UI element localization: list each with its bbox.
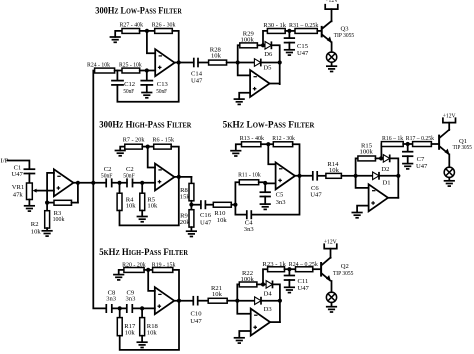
wire node up to R22 <box>237 284 239 300</box>
svg-text:300Hz High-Pass Filter: 300Hz High-Pass Filter <box>99 120 192 131</box>
ground at R20 left <box>113 275 124 280</box>
ground under R5 <box>137 217 148 222</box>
resistor R15 <box>358 143 376 161</box>
svg-text:R10: R10 <box>214 210 226 217</box>
node clipper2 input <box>354 174 358 178</box>
resistor R16 <box>381 135 403 146</box>
node HPF1 output <box>177 175 181 179</box>
resistor R20 <box>122 261 146 272</box>
svg-text:R7 - 20k: R7 - 20k <box>123 137 145 144</box>
wire D6 to output column <box>271 45 279 84</box>
node LPF output <box>177 60 181 64</box>
wire D5 to output column <box>261 62 280 64</box>
node buffer output <box>76 181 80 185</box>
svg-text:TIP 3055: TIP 3055 <box>453 144 473 151</box>
resistor R21 <box>208 285 227 303</box>
wire Q3 emitter to lamp <box>331 42 333 52</box>
ground under C11 <box>284 287 295 292</box>
node LPF2 output <box>297 174 301 178</box>
capacitor C5 <box>260 183 286 206</box>
op-amp U6 clipper2 <box>369 184 388 211</box>
resistor R4 <box>117 183 136 211</box>
svg-text:20k: 20k <box>180 219 191 226</box>
svg-text:U47: U47 <box>200 220 212 227</box>
node D5 output junction <box>278 60 282 64</box>
power +12V supply Q2 <box>324 238 337 248</box>
svg-text:10k: 10k <box>31 228 42 235</box>
power +12V supply Q3 <box>325 0 338 9</box>
svg-text:3n3: 3n3 <box>126 295 137 302</box>
wire Q2 emitter to lamp <box>331 281 333 292</box>
wire lamp to ground <box>331 62 333 66</box>
svg-text:47k: 47k <box>13 191 24 198</box>
svg-text:50nF: 50nF <box>101 172 113 179</box>
power +12V supply Q1 <box>443 112 456 122</box>
svg-text:D3: D3 <box>264 306 273 313</box>
wire VR1 bottom to ground <box>28 200 30 206</box>
resistor R13 <box>240 135 265 147</box>
wire D1 to output column <box>379 175 398 177</box>
wire D3 to output column <box>261 300 280 302</box>
svg-text:R26 - 30k: R26 - 30k <box>152 22 176 29</box>
node clipper3 input <box>235 299 239 303</box>
resistor R17 <box>406 135 435 146</box>
node LPF2 input node A <box>233 203 237 207</box>
wire ground to R27 <box>115 31 122 37</box>
wire R15 to D2 <box>376 157 384 159</box>
svg-text:10k: 10k <box>126 203 137 210</box>
svg-text:+12V: +12V <box>324 238 337 245</box>
svg-text:3n3: 3n3 <box>276 199 287 206</box>
wire R21 to clipper3 node <box>227 300 237 302</box>
wire R6 feedback to output <box>171 147 179 177</box>
wire R4 feedback rail to output <box>120 177 179 226</box>
wire junction to op-amp minus <box>148 270 155 291</box>
wire C9 to op-amp plus <box>133 307 155 309</box>
lamp LP2 <box>326 292 336 302</box>
svg-text:C15: C15 <box>297 43 309 50</box>
wire op-amp plus to ground <box>239 93 250 99</box>
wire R14 to clipper2 node <box>341 175 355 177</box>
wire node up to R29 <box>238 45 240 62</box>
wire C16 to R10 <box>206 204 214 206</box>
resistor R29 <box>240 30 258 47</box>
wire R7 to R6 <box>142 146 153 148</box>
svg-text:D4: D4 <box>264 291 273 298</box>
svg-text:R12 - 30k: R12 - 30k <box>272 135 295 142</box>
svg-text:+12V: +12V <box>443 112 456 119</box>
lamp LP1 <box>444 167 454 177</box>
wire R12 feedback to output <box>293 144 300 176</box>
resistor R26 <box>152 22 176 34</box>
wire R10 to 5kHz LPF input node <box>231 204 235 206</box>
wire R16 from R15 junction <box>380 144 382 158</box>
resistor R22 <box>239 270 257 287</box>
svg-text:U47: U47 <box>190 318 202 325</box>
resistor R24 output <box>289 261 319 272</box>
svg-text:R25 - 10k: R25 - 10k <box>119 62 142 69</box>
svg-text:C10: C10 <box>191 311 203 318</box>
diode D3 <box>237 297 272 313</box>
wire R29 to D6 <box>257 44 265 46</box>
svg-text:U47: U47 <box>191 77 203 84</box>
resistor R17b <box>117 308 136 336</box>
node clipper1 input <box>236 60 240 64</box>
resistor R12 <box>272 135 295 147</box>
node HPF2 output <box>177 299 181 303</box>
ground under R18 <box>137 342 148 347</box>
wire lamp to ground <box>331 303 333 307</box>
resistor R27 <box>120 22 144 34</box>
wire C6 to R14 <box>317 175 326 177</box>
ground under R2 <box>42 231 53 236</box>
wire junction to op-amp minus <box>147 31 155 53</box>
wire R13 to R12 <box>261 143 273 145</box>
wire R24 to Q2 base <box>313 268 320 270</box>
svg-text:10k: 10k <box>329 167 340 174</box>
op-amp U1 buffer <box>54 169 74 196</box>
wire C14 to R28 <box>198 62 208 64</box>
svg-text:R27 - 40k: R27 - 40k <box>120 22 144 29</box>
capacitor C12 <box>112 71 135 95</box>
capacitor C6 <box>310 171 322 199</box>
wire node up to R15 <box>356 158 358 175</box>
svg-text:R30 - 1k: R30 - 1k <box>263 22 286 29</box>
svg-text:R31 – 0.25k: R31 – 0.25k <box>289 22 319 29</box>
op-amp U4 300Hz HPF <box>155 164 174 191</box>
resistor R28 <box>209 46 227 65</box>
ground at R27 left <box>110 37 121 42</box>
svg-text:300Hz Low-Pass Filter: 300Hz Low-Pass Filter <box>95 6 182 17</box>
wire R30 to R31 <box>285 30 295 32</box>
node gain junction HPF1 <box>146 145 150 149</box>
capacitor C14 <box>191 58 203 85</box>
wire D2 to output column <box>390 158 399 197</box>
ground at clipper2 op-amp <box>352 213 363 218</box>
svg-text:TIP 3055: TIP 3055 <box>334 32 355 39</box>
svg-text:R6 - 15k: R6 - 15k <box>152 137 174 144</box>
svg-text:U47: U47 <box>297 50 309 57</box>
wire R11 to op-amp plus <box>259 182 276 183</box>
svg-text:100k: 100k <box>53 216 65 223</box>
lamp LP3 <box>326 52 336 62</box>
wire node to op-amp minus <box>238 63 250 76</box>
ground under VR1 <box>24 206 35 211</box>
resistor R3 <box>47 200 78 223</box>
diode D5 <box>238 59 272 72</box>
ground under R9 <box>186 231 197 236</box>
wire ground to R13 <box>236 144 242 150</box>
wire R23 to R24 <box>285 268 296 270</box>
ground under lamp Q1 <box>444 181 455 186</box>
svg-text:5kHz Low-Pass Filter: 5kHz Low-Pass Filter <box>223 120 316 131</box>
wire buffer output <box>73 182 106 184</box>
svg-text:R19 - 15k: R19 - 15k <box>152 261 176 268</box>
svg-text:D2: D2 <box>381 166 389 173</box>
wire HPF1 output <box>174 176 191 178</box>
capacitor C2 second <box>123 166 135 187</box>
wire node to op-amp minus <box>237 301 250 314</box>
node R15 D2 R16 junction <box>379 156 383 160</box>
diode D1 <box>356 172 391 186</box>
transistor Q2 <box>321 249 354 282</box>
wire input to C1 <box>8 161 30 169</box>
potentiometer VR1 <box>12 183 47 200</box>
ground under lamp Q2 <box>326 307 337 312</box>
op-amp U7 5kHz HPF <box>155 287 174 314</box>
svg-text:100k: 100k <box>360 149 374 156</box>
op-amp U3 clipper1 <box>250 70 270 97</box>
node buffer feedback junction <box>45 201 49 205</box>
ground at clipper1 op-amp <box>234 99 245 104</box>
wire op-amp output up <box>270 321 280 323</box>
svg-text:10k: 10k <box>147 203 158 210</box>
resistor R24 <box>87 62 115 73</box>
capacitor C1 <box>12 165 35 178</box>
wire op-amp output <box>175 62 194 64</box>
svg-text:3n3: 3n3 <box>106 295 117 302</box>
wire op-amp minus input feedback <box>47 173 54 203</box>
node main bus junction <box>91 181 95 185</box>
capacitor C10 <box>190 296 202 325</box>
svg-text:U47: U47 <box>416 163 428 170</box>
wire lamp to ground <box>448 178 450 181</box>
wire R16 to R17 <box>403 143 412 145</box>
ground under C5 <box>260 204 271 209</box>
svg-text:R2: R2 <box>31 221 39 228</box>
op-amp U2 300Hz LPF <box>155 49 174 76</box>
capacitor C9 <box>126 289 137 313</box>
svg-text:U47: U47 <box>298 285 310 292</box>
node gain junction HPF2 <box>146 268 150 272</box>
svg-text:Q2: Q2 <box>341 263 349 270</box>
wire op-amp output up <box>388 197 398 199</box>
diode D4 <box>264 281 273 298</box>
capacitor C2 first <box>101 166 113 187</box>
wire D4 to output column <box>273 284 280 322</box>
svg-text:C7: C7 <box>417 156 425 163</box>
wire R25 to op-amp <box>140 70 156 72</box>
svg-text:50nF: 50nF <box>156 88 167 95</box>
node R29 D6 R30 junction <box>261 43 265 47</box>
node HPF2 node A <box>118 306 122 310</box>
svg-text:R23 - 1k: R23 - 1k <box>262 261 286 268</box>
wire ground to R20 <box>119 270 124 275</box>
node gain junction LPF2 <box>266 142 270 146</box>
svg-text:R24 - 10k: R24 - 10k <box>87 62 111 69</box>
wire R17b feedback rail to output <box>120 301 179 350</box>
svg-text:+12V: +12V <box>325 0 338 4</box>
resistor R9 <box>180 210 194 231</box>
node R23 R24 C11 junction <box>287 267 291 271</box>
resistor R23 <box>262 261 286 272</box>
svg-text:R20 - 20k: R20 - 20k <box>122 261 146 268</box>
wire Q1 emitter to lamp <box>448 155 450 168</box>
svg-text:10k: 10k <box>147 329 158 336</box>
svg-text:15k: 15k <box>180 193 191 200</box>
resistor R5 <box>140 183 158 217</box>
svg-text:10k: 10k <box>212 291 223 298</box>
wire R26 feedback to output <box>172 31 178 63</box>
capacitor C13 <box>141 71 168 95</box>
node R8 R9 divider junction <box>190 201 192 210</box>
resistor R7 <box>123 137 145 149</box>
node A junction R24 R25 C12 <box>115 70 122 72</box>
wire junction to op-amp minus <box>148 147 155 168</box>
svg-text:R13 - 40k: R13 - 40k <box>240 135 265 142</box>
op-amp U8 clipper3 <box>251 309 270 336</box>
capacitor C8 <box>106 289 117 313</box>
node HPF2 node B <box>140 306 144 310</box>
svg-text:R17 – 0.25k: R17 – 0.25k <box>406 135 435 142</box>
wire R31 to Q3 base <box>317 30 321 32</box>
wire LPF2 output <box>295 175 313 177</box>
wire main distribution bus <box>93 71 106 309</box>
node R16 R17 C7 junction <box>406 142 410 146</box>
wire op-amp plus to ground <box>357 206 369 213</box>
svg-text:10k: 10k <box>125 329 136 336</box>
diode D6 <box>264 41 273 57</box>
svg-text:R16 – 1k: R16 – 1k <box>382 135 404 142</box>
wire op-amp output up <box>270 83 280 85</box>
capacitor C11 <box>285 269 310 292</box>
capacitor C15 <box>285 31 309 57</box>
op-amp U5 5kHz LPF <box>276 162 295 189</box>
resistor R8 <box>180 177 194 201</box>
resistor R19 <box>152 261 176 272</box>
node R22 D4 R23 junction <box>261 282 265 286</box>
wire node up to R11 <box>235 182 239 205</box>
resistor R14 <box>326 161 342 178</box>
wire R17 to Q1 base <box>431 143 438 145</box>
svg-text:100k: 100k <box>241 36 255 43</box>
resistor R30 <box>263 22 286 33</box>
ground under C7 <box>402 164 413 169</box>
svg-text:D6: D6 <box>264 51 273 58</box>
svg-text:C16: C16 <box>200 212 212 219</box>
svg-text:3n3: 3n3 <box>244 226 255 233</box>
diode D2 <box>381 155 389 173</box>
capacitor C7 <box>403 144 428 170</box>
wire HPF2 output <box>174 300 193 302</box>
node HPF1 node B <box>140 181 144 185</box>
svg-text:50nF: 50nF <box>123 88 134 95</box>
node D1 output junction <box>396 174 400 178</box>
svg-text:C5: C5 <box>276 192 284 199</box>
svg-text:10k: 10k <box>217 217 228 224</box>
wire C2a to C2b <box>112 182 127 184</box>
resistor R25 <box>119 62 142 73</box>
ground under C13 <box>141 93 152 98</box>
resistor R18 <box>140 308 159 342</box>
capacitor C16 <box>191 200 212 226</box>
wire R2 to ground <box>46 228 48 231</box>
resistor R6 <box>152 137 174 149</box>
svg-text:U47: U47 <box>12 171 24 178</box>
resistor R31 <box>289 22 319 33</box>
node D3 output junction <box>278 299 282 303</box>
wire R27 to R26 <box>140 30 155 32</box>
wire op-amp plus to ground <box>239 331 250 338</box>
wire wiper to op-amp + input <box>47 190 54 192</box>
wire C2b to op-amp plus <box>133 182 155 184</box>
wire R3 to output <box>77 183 79 203</box>
node LPF2 node B <box>263 181 267 185</box>
node B junction R25 C13 <box>145 68 149 72</box>
node R30 R31 C15 junction <box>287 29 291 33</box>
ground under lamp Q3 <box>326 66 337 71</box>
resistor R10 <box>213 202 231 224</box>
resistor R11 <box>238 172 261 185</box>
svg-text:D5: D5 <box>263 64 272 71</box>
svg-text:10k: 10k <box>211 53 222 60</box>
wire R28 to clipper node <box>227 62 238 64</box>
ground at clipper3 op-amp <box>234 338 245 343</box>
svg-text:TIP 3055: TIP 3055 <box>333 270 354 277</box>
node gain junction <box>145 29 149 33</box>
wire C1 to VR1 <box>28 174 30 184</box>
ground under C15 <box>284 50 295 55</box>
svg-text:5kHz High-Pass Filter: 5kHz High-Pass Filter <box>99 247 189 258</box>
ground at R7 left <box>115 151 126 156</box>
wire C10 to R21 <box>198 300 208 302</box>
wire C8 to C9 <box>112 307 127 309</box>
transistor Q1 <box>439 123 472 155</box>
svg-text:R24 – 0.25k: R24 – 0.25k <box>289 261 319 268</box>
resistor R2 <box>31 203 50 236</box>
wire junction to op-amp minus <box>268 144 275 164</box>
wire node to op-amp minus <box>356 176 369 188</box>
wire R22 to D4 <box>257 283 266 285</box>
svg-text:VR1: VR1 <box>12 184 24 191</box>
capacitor C4 feedback <box>235 176 299 233</box>
svg-text:50nF: 50nF <box>123 172 135 179</box>
wire ground to R7 <box>120 147 125 151</box>
wire R19 feedback to output <box>173 270 179 301</box>
ground at R13 left <box>230 151 241 156</box>
wire R30 from R29 junction <box>263 31 267 45</box>
wire R23 from R22 junction <box>263 269 268 284</box>
node HPF1 node A <box>117 181 121 185</box>
svg-text:R11 - 10k: R11 - 10k <box>238 172 261 179</box>
transistor Q3 <box>322 9 355 43</box>
svg-text:100k: 100k <box>241 276 255 283</box>
wire R20 to R19 <box>144 269 153 271</box>
svg-text:D1: D1 <box>383 179 391 186</box>
svg-text:U47: U47 <box>310 192 322 199</box>
wire C12 feedback rail to output <box>117 63 178 102</box>
